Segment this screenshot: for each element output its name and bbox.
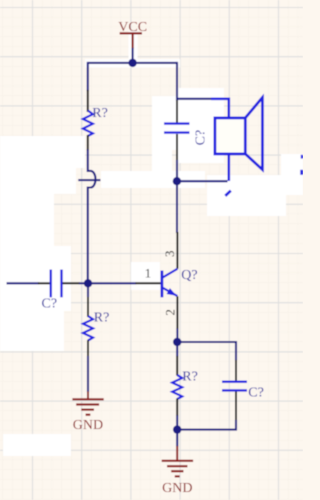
resistor R3 body bbox=[172, 375, 182, 399]
transistor Q1 pin 3 collector bbox=[176, 232, 178, 269]
resistor R3 pin 1 bbox=[176, 356, 178, 376]
wire right rail upper bbox=[176, 62, 178, 101]
junction bottom node bbox=[173, 425, 181, 433]
capacitor C2 pin 1 bbox=[38, 282, 50, 284]
transistor Q1 body bbox=[162, 269, 178, 298]
transistor Q1 emitter arrow bbox=[167, 288, 177, 296]
capacitor C1 pin 2 bbox=[176, 134, 178, 161]
wire right rail to transistor bbox=[176, 181, 178, 233]
wire C3 bottom to node bbox=[177, 420, 236, 430]
resistor R1 body bbox=[83, 111, 93, 137]
resistor R1 pin 1 bbox=[87, 90, 89, 112]
capacitor C1 plates bbox=[164, 124, 190, 133]
svg-text:GND: GND bbox=[73, 418, 103, 433]
svg-text:GND: GND bbox=[162, 481, 192, 496]
stray mark below speaker bbox=[225, 191, 231, 196]
transistor Q1 pin 2 emitter bbox=[176, 296, 178, 329]
svg-text:C?: C? bbox=[248, 386, 264, 401]
svg-text:R?: R? bbox=[92, 106, 108, 121]
wire R2 to GND bbox=[87, 356, 89, 393]
resistor R2 body bbox=[83, 316, 93, 341]
ground GND2 bbox=[162, 446, 193, 476]
wire bottom node to GND2 bbox=[176, 430, 178, 447]
wire top horizontal bbox=[88, 62, 177, 64]
power port VCC bbox=[118, 20, 147, 49]
wire base node to transistor bbox=[88, 282, 136, 284]
junction base node bbox=[84, 279, 92, 287]
resistor R1 pin 2 bbox=[87, 135, 89, 151]
wire node to C3 branch bbox=[177, 342, 236, 361]
wire to speaker top bbox=[177, 98, 212, 100]
capacitor C2 pin 2 bbox=[63, 282, 81, 284]
loudspeaker LS pin wire top bbox=[211, 99, 229, 119]
resistor R2 pin 1 bbox=[87, 296, 89, 317]
transistor Q1 pin 1 base lead bbox=[136, 282, 162, 284]
svg-text:C?: C? bbox=[193, 130, 208, 146]
wire hop crossbar bbox=[78, 179, 100, 181]
capacitor C2 plates bbox=[51, 270, 62, 298]
svg-text:2: 2 bbox=[162, 309, 177, 316]
loudspeaker LS cone bbox=[245, 98, 262, 170]
svg-text:C?: C? bbox=[42, 296, 58, 311]
resistor R2 pin 2 bbox=[87, 340, 89, 357]
svg-text:R?: R? bbox=[182, 369, 198, 384]
junction emitter node bbox=[173, 338, 181, 346]
junction right rail bbox=[173, 177, 181, 185]
capacitor C2 input wire bbox=[7, 282, 40, 284]
svg-text:1: 1 bbox=[145, 266, 152, 281]
wire left rail upper bbox=[87, 62, 89, 91]
stray mark right edge lower bbox=[300, 170, 303, 175]
wire R3 to bottom node bbox=[176, 415, 178, 429]
wire pin2 to junction bbox=[79, 282, 88, 284]
svg-text:R?: R? bbox=[94, 311, 110, 326]
wire emitter to node bbox=[176, 329, 178, 343]
loudspeaker LS body bbox=[215, 118, 245, 154]
svg-text:Q?: Q? bbox=[181, 268, 197, 283]
wire VCC stem to bus bbox=[132, 48, 134, 63]
svg-text:3: 3 bbox=[162, 251, 177, 257]
junction top bbox=[128, 59, 136, 67]
capacitor C3 pin 2 bbox=[235, 392, 237, 422]
capacitor C3 plates bbox=[222, 382, 247, 391]
loudspeaker LS pin bottom bbox=[228, 154, 231, 181]
wire left rail with hop bbox=[88, 149, 96, 283]
wire speaker bottom to rail bbox=[177, 180, 228, 182]
wire node down to R3 bbox=[176, 342, 178, 357]
capacitor C1 pin 1 bbox=[176, 100, 178, 123]
stray mark right edge upper bbox=[301, 155, 303, 159]
wire right rail to junction bbox=[176, 160, 178, 181]
resistor R3 pin 2 bbox=[176, 399, 178, 417]
capacitor C3 pin 1 bbox=[235, 360, 237, 381]
wire junction to R2 bbox=[87, 283, 89, 297]
ground GND1 bbox=[72, 392, 103, 415]
